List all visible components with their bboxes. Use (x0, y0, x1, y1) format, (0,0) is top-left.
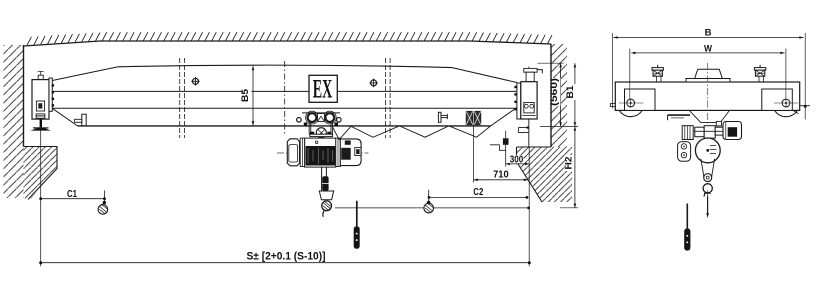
left wall hatching (4, 45, 24, 198)
funnel side box (716, 121, 721, 126)
top platform (686, 79, 730, 83)
girder right bottom taper (491, 108, 517, 126)
trolley side plates (309, 123, 332, 135)
dimension W endview (631, 52, 784, 54)
girder break mark pair left (180, 58, 185, 138)
trolley corner blocks (304, 123, 308, 126)
hoist motor (340, 139, 361, 166)
svg-text:C1: C1 (67, 189, 77, 200)
ceiling line (24, 41, 552, 46)
hook travel line (335, 207, 529, 209)
dimension C1 (41, 198, 105, 200)
hoist control box endview (682, 126, 693, 140)
left carriage top cap (38, 75, 43, 79)
trolley rope pulley (316, 128, 326, 138)
dimension 300 (506, 163, 530, 165)
right carriage top arm (537, 70, 542, 74)
right carriage under-bracket (528, 119, 530, 147)
dimension B endview (614, 37, 804, 39)
hoist drum circle endview (695, 138, 720, 163)
left end carriage body (32, 80, 49, 120)
hook symbol mid (424, 203, 434, 213)
hook block (319, 191, 333, 200)
festoon bracket mid (438, 112, 441, 122)
top platform block (695, 69, 723, 78)
hook symbol left (98, 205, 108, 215)
girder third line (52, 107, 517, 109)
svg-text:(560): (560) (549, 78, 559, 106)
right carriage inner box (524, 103, 534, 113)
EX sign (309, 75, 337, 104)
dimension S (41, 262, 530, 264)
dimension (560) (560, 63, 562, 126)
lifting mark 1 (191, 77, 200, 86)
hoist ropes (322, 167, 327, 192)
beam left buffer bracket (610, 103, 615, 106)
hoist right flange (336, 138, 341, 166)
left wheel tread arc (619, 110, 642, 116)
left wheel hub (627, 99, 635, 107)
svg-text:B5: B5 (240, 88, 251, 102)
ceiling hatching (27, 32, 552, 45)
girder second line (52, 90, 517, 92)
right carriage connection plate (517, 83, 521, 119)
pendant arm endview (668, 114, 690, 116)
hoist rope drum (306, 146, 336, 166)
left carriage connection plate (49, 78, 52, 111)
left carriage inner box (36, 101, 44, 111)
pendant control station endview (684, 228, 690, 250)
right rail clamp bolt (759, 65, 761, 68)
dimension B5 (252, 66, 254, 126)
trolley center bracket (318, 114, 325, 122)
svg-text:W: W (704, 43, 712, 54)
girder left bottom taper (52, 108, 77, 126)
right wall line (550, 44, 552, 147)
trolley wheel left (306, 111, 319, 124)
left wall line (23, 45, 25, 147)
girder right top taper (452, 68, 517, 83)
W extension lines (630, 49, 786, 103)
right wall hatching (551, 44, 567, 147)
S right extension line (528, 147, 530, 266)
trolley wheel right (323, 111, 336, 124)
girder bottom line (78, 125, 491, 127)
svg-text:H2: H2 (563, 157, 574, 170)
lifting mark 2 (369, 79, 378, 88)
left carriage lower box (36, 114, 45, 119)
left corbel (24, 147, 58, 199)
girder break mark pair right (386, 58, 391, 138)
svg-text:EX: EX (313, 75, 333, 104)
right wheel hub (782, 99, 790, 107)
festoon bracket left (82, 114, 86, 126)
endview centerline (707, 63, 709, 160)
right carriage bolts (514, 86, 516, 111)
hoist lug plate endview (678, 142, 691, 162)
end carriage beam (615, 82, 799, 110)
festoon wire zigzag (333, 126, 491, 140)
festoon clamp blocks (466, 111, 473, 124)
hoist drum axis centerline (277, 152, 369, 154)
left carriage bolts (52, 84, 54, 106)
trolley side small wheels (297, 118, 302, 123)
girder top line (118, 65, 452, 67)
right wheel tread arc (775, 110, 798, 116)
pendant control station main view (354, 226, 360, 248)
svg-text:B1: B1 (565, 85, 576, 99)
hoist left cap (287, 139, 299, 166)
svg-text:300: 300 (510, 155, 524, 166)
left buffer stem (40, 119, 42, 128)
hoist hook (322, 201, 332, 211)
left rail clamp bolt (657, 65, 659, 68)
dimension C2 (429, 196, 527, 198)
festoon panel box (503, 138, 509, 145)
right corbel (517, 147, 573, 202)
pendant cable main view (356, 201, 358, 227)
right wheel box (762, 89, 793, 110)
girder span centerline (284, 61, 286, 135)
dimension B1 (574, 63, 576, 126)
svg-text:B: B (705, 28, 712, 39)
right carriage top cap (524, 68, 537, 72)
pendant cable endview (686, 204, 688, 229)
right end carriage body (521, 82, 537, 119)
dimension H2 (574, 126, 576, 207)
trolley shaft blocks endview (695, 127, 704, 137)
left carriage centerline (40, 71, 42, 266)
hoist suspension bar (310, 134, 333, 136)
hook endview (703, 184, 712, 193)
svg-text:710: 710 (493, 168, 509, 180)
funnel (690, 111, 730, 123)
left wheel box (625, 89, 656, 110)
hoist trolley top plate (302, 112, 340, 114)
710 extension line (473, 125, 475, 183)
hoist left flange (300, 138, 305, 166)
right carriage centerline (528, 67, 530, 148)
hoist motor endview (723, 122, 742, 140)
svg-text:S± [2+0.1 (S-10)]: S± [2+0.1 (S-10)] (247, 250, 326, 262)
hook suspension endview (701, 159, 715, 177)
left rail anchor (31, 127, 52, 130)
dimension 710 (474, 179, 528, 181)
hoist drum housing (305, 138, 336, 167)
festoon panel wires (490, 131, 506, 167)
rope limit weight (322, 176, 328, 190)
svg-text:C2: C2 (473, 187, 483, 198)
B extension lines (612, 33, 805, 120)
girder left top taper (50, 67, 118, 81)
